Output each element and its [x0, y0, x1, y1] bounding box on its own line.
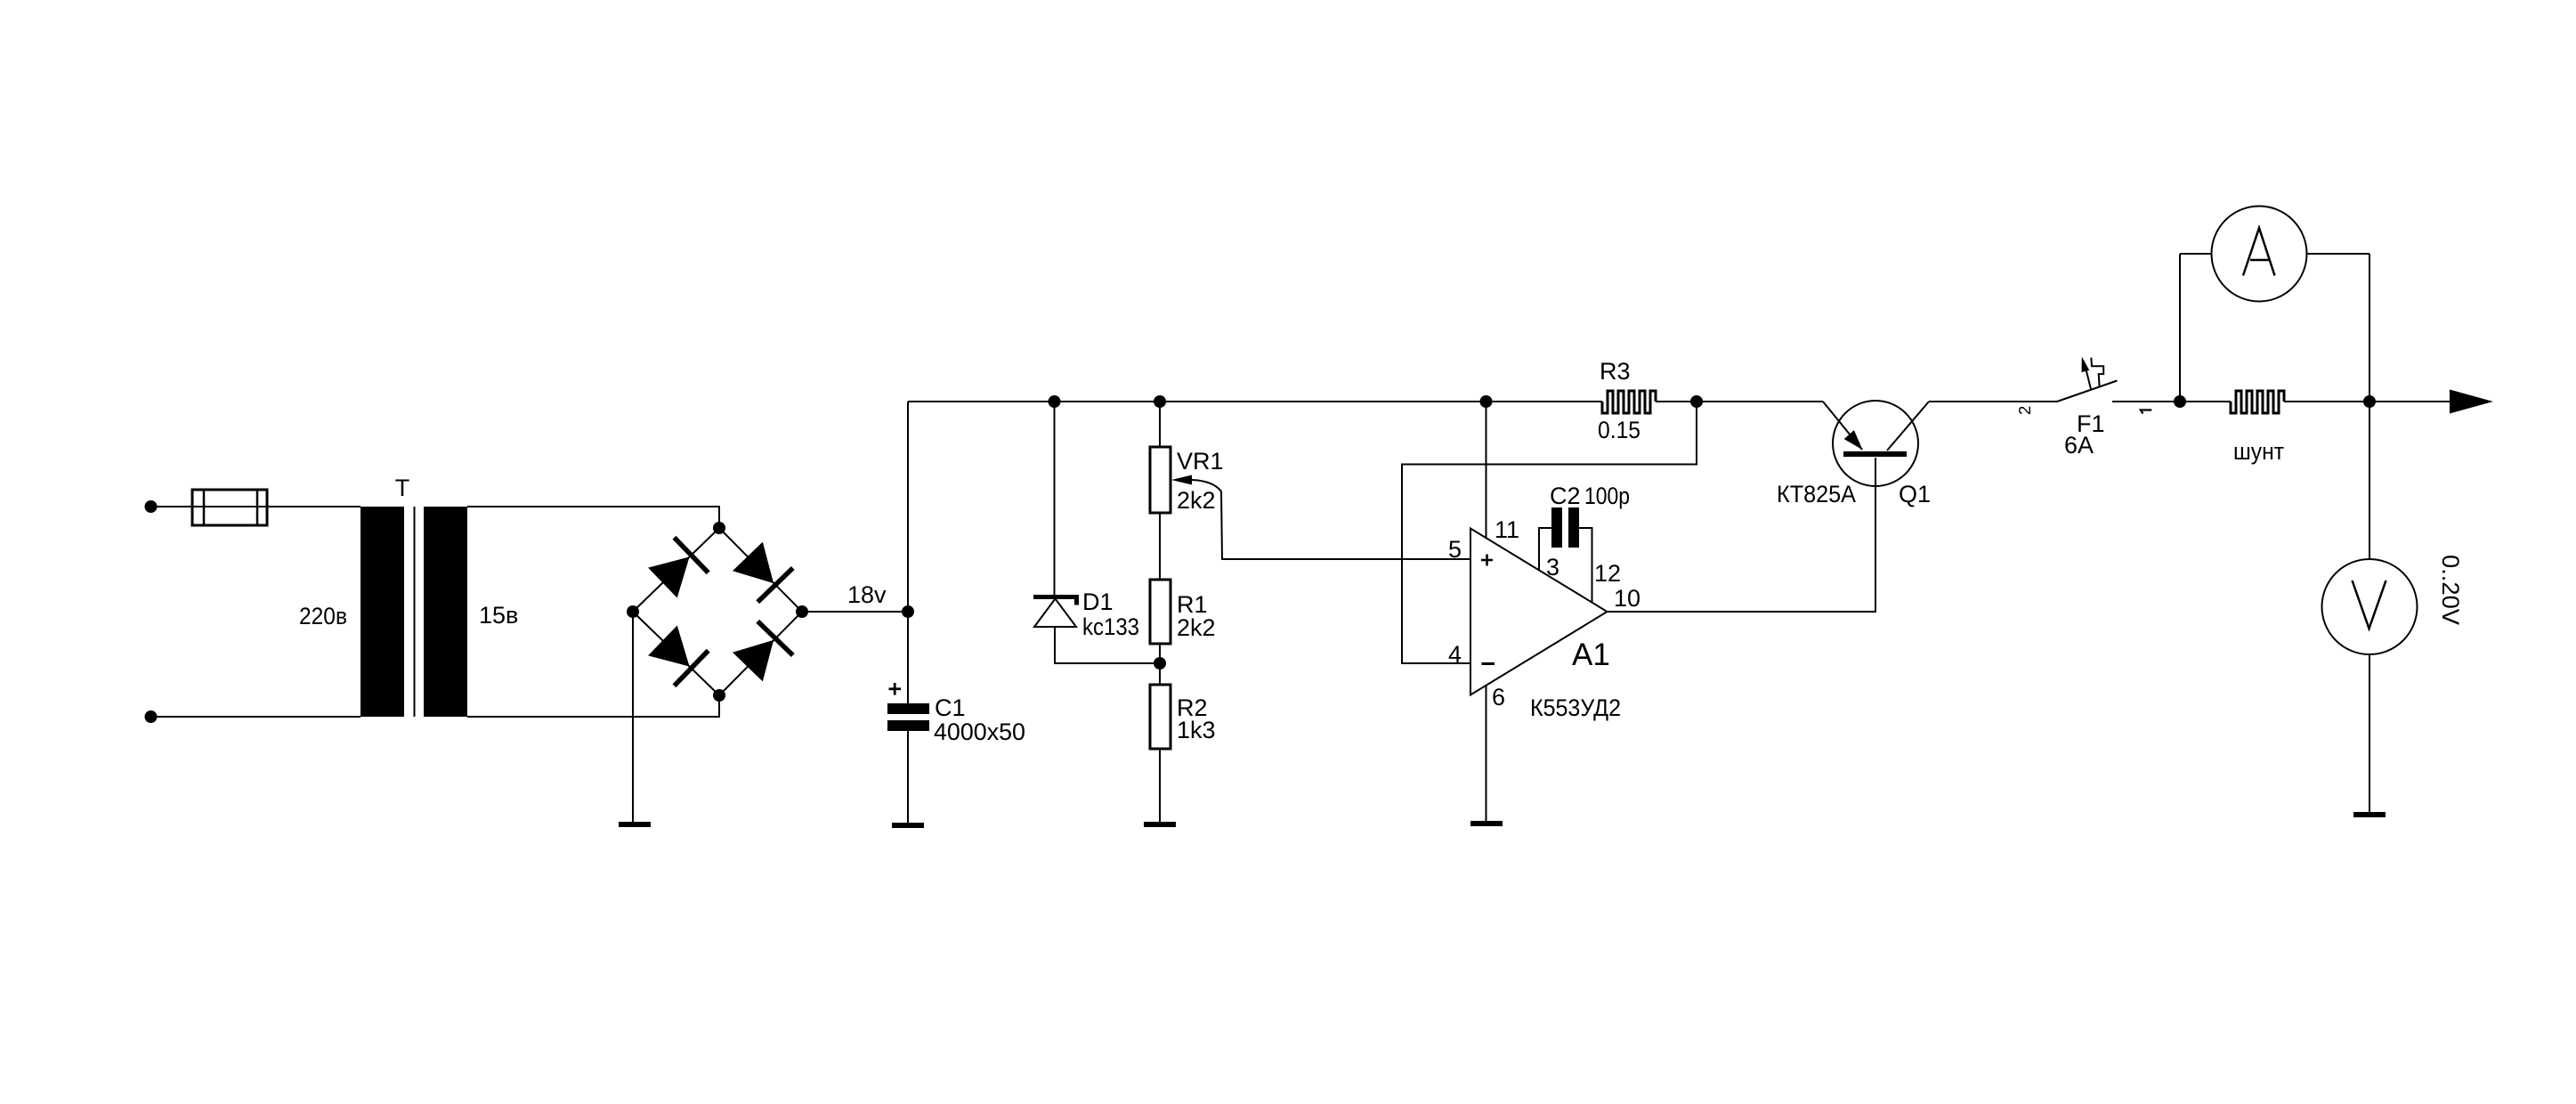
shunt resistor (meander): [2231, 391, 2284, 413]
svg-text:11: 11: [1495, 516, 1519, 543]
svg-text:К553УД2: К553УД2: [1530, 694, 1621, 721]
capacitor C1 plus sign: [889, 683, 902, 695]
ammeter PA circle: [2212, 207, 2307, 302]
svg-text:4: 4: [1448, 641, 1462, 668]
svg-text:2: 2: [2015, 406, 2034, 415]
node: bridge right: [796, 605, 808, 618]
wire: R3 to transistor emitter: [1656, 401, 1823, 402]
wire: VR1 wiper to op-amp pin 5: [1192, 480, 1470, 559]
svg-text:0.15: 0.15: [1598, 417, 1640, 443]
svg-text:1k3: 1k3: [1177, 717, 1216, 743]
wire: bridge left node down to ground: [632, 612, 634, 822]
wire: pin 6 to ground: [1486, 686, 1487, 822]
wire: node down to voltmeter: [2369, 402, 2370, 559]
output arrow: [2450, 390, 2493, 414]
svg-text:18v: 18v: [847, 581, 887, 608]
capacitor C1 bottom plate: [887, 720, 929, 731]
ground (bridge left): [619, 822, 651, 827]
svg-text:3: 3: [1546, 554, 1559, 580]
svg-text:0..20V: 0..20V: [2437, 555, 2464, 625]
svg-text:15в: 15в: [479, 602, 518, 629]
wire: C2 right to pin 12: [1579, 528, 1592, 602]
wire: voltmeter to ground: [2369, 654, 2370, 812]
voltmeter PV circle: [2322, 559, 2418, 654]
bridge diode bottom-right: [730, 620, 795, 684]
bridge arm bottom-right: [719, 612, 802, 695]
wire: pin 3 to C2 left: [1539, 528, 1551, 571]
bridge arm top-left: [633, 528, 719, 612]
bridge arm bottom-left: [633, 612, 719, 695]
svg-text:КТ825А: КТ825А: [1777, 481, 1856, 507]
node: input terminal bottom: [145, 710, 158, 723]
svg-text:VR1: VR1: [1177, 448, 1224, 475]
svg-text:100p: 100p: [1584, 483, 1630, 509]
capacitor C1 top plate: [887, 703, 929, 714]
bridge diode top-right: [730, 540, 795, 604]
breaker F1 blade: [2057, 381, 2118, 402]
transistor Q1 emitter arrow: [1844, 430, 1868, 454]
svg-text:12: 12: [1594, 560, 1621, 587]
wire: rail to VR1: [1159, 402, 1161, 447]
svg-text:4000x50: 4000x50: [934, 718, 1025, 745]
wire: ammeter branch right horizontal: [2307, 253, 2370, 255]
svg-text:2k2: 2k2: [1177, 614, 1216, 641]
wire: 18v vertical (rail down to C1): [907, 402, 909, 703]
node: bridge left: [627, 605, 639, 618]
svg-text:C1: C1: [935, 694, 966, 721]
wire: VR1 to R1: [1159, 513, 1161, 580]
transistor Q1 circle: [1833, 401, 1918, 486]
fuse (input): [192, 490, 267, 525]
node: bridge top: [713, 522, 725, 534]
svg-text:R3: R3: [1600, 358, 1631, 385]
transistor Q1 collector lead: [1887, 402, 1929, 451]
wire: shunt to output arrow: [2284, 401, 2450, 402]
wire: op-amp output to transistor base: [1608, 458, 1876, 612]
bridge arm top-right: [719, 528, 802, 612]
svg-text:A1: A1: [1572, 637, 1610, 672]
ground (voltmeter): [2353, 812, 2386, 817]
wire: collector to breaker F1: [1929, 401, 2057, 402]
op-amp plus input marking: [1481, 555, 1493, 566]
capacitor C2 left plate: [1551, 507, 1562, 548]
bridge diode top-left: [645, 536, 709, 601]
transistor Q1 base bar: [1843, 451, 1907, 457]
zener diode D1 cathode bar: [1033, 595, 1079, 599]
resistor R3 (meander): [1602, 391, 1656, 413]
svg-text:Q1: Q1: [1899, 481, 1931, 507]
svg-text:T: T: [395, 475, 410, 501]
potentiometer VR1 wiper arrow: [1171, 475, 1192, 485]
wire: +18v top rail: [908, 401, 1602, 402]
node: R1/R2/D1 junction: [1154, 657, 1166, 670]
svg-text:6A: 6A: [2064, 432, 2094, 459]
wire: ammeter branch right vertical: [2369, 254, 2370, 402]
wire: R2 to ground: [1159, 749, 1161, 822]
node: R3 right / feedback: [1690, 395, 1703, 408]
wire: R1 to junction: [1159, 644, 1161, 685]
svg-text:шунт: шунт: [2233, 438, 2284, 465]
ground (op-amp pin 6): [1470, 821, 1503, 826]
zener diode D1 cathode tail: [1074, 599, 1079, 605]
breaker pin label 1 (rotated): [2141, 410, 2152, 414]
node: shunt left / ammeter branch: [2174, 395, 2186, 408]
svg-text:220в: 220в: [299, 603, 347, 629]
node: shunt right / voltmeter branch: [2363, 395, 2376, 408]
ammeter letter A: [2243, 228, 2275, 276]
wire: breaker fixed contact to node: [2112, 401, 2180, 402]
wire: input bottom to transformer primary: [151, 716, 361, 718]
wire: node to shunt: [2180, 401, 2231, 402]
wire: C1 to ground: [907, 731, 909, 823]
wire: bridge right node to 18v node: [802, 611, 908, 613]
svg-text:2k2: 2k2: [1177, 487, 1216, 514]
zener diode D1 triangle: [1034, 599, 1076, 628]
node: rail / D1 branch: [1049, 395, 1061, 408]
resistor R2 body: [1150, 685, 1171, 749]
wire: feedback from R3 right node to op-amp pin 4: [1402, 402, 1697, 663]
transistor Q1 emitter lead: [1823, 402, 1862, 450]
breaker F1 arrow head: [2078, 355, 2089, 372]
ground (R2): [1144, 822, 1176, 827]
breaker F1 hook symbol: [2091, 358, 2103, 386]
wire: pin 11 from rail: [1486, 402, 1487, 539]
op-amp minus input marking: [1482, 662, 1495, 665]
svg-text:D1: D1: [1082, 589, 1114, 615]
transformer T secondary winding: [424, 507, 467, 717]
capacitor C2 right plate: [1568, 507, 1579, 548]
wire: secondary top to bridge: [467, 507, 719, 528]
voltmeter letter V: [2353, 580, 2386, 629]
wire: ammeter branch left vertical: [2179, 254, 2181, 402]
wire: D1 anode down and right to junction: [1055, 627, 1160, 663]
svg-text:6: 6: [1492, 684, 1505, 710]
transformer T core: [414, 507, 416, 717]
node: 18v: [902, 605, 914, 618]
svg-text:kc133: kc133: [1082, 613, 1139, 640]
potentiometer VR1 body: [1150, 447, 1171, 513]
svg-text:10: 10: [1614, 585, 1640, 612]
svg-text:C2: C2: [1550, 483, 1581, 509]
transformer T primary winding: [360, 507, 404, 717]
node: rail / op-amp pin 11 branch: [1480, 395, 1493, 408]
node: bridge bottom: [713, 689, 725, 702]
svg-text:5: 5: [1448, 536, 1462, 563]
wire: input top to transformer primary: [151, 506, 361, 507]
node: rail / VR1 branch: [1154, 395, 1166, 408]
op-amp A1 triangle: [1470, 529, 1608, 695]
ground (C1): [892, 823, 924, 828]
bridge diode bottom-left: [645, 623, 709, 688]
wire: ammeter branch left horizontal: [2180, 253, 2212, 255]
wire: secondary bottom to bridge: [467, 695, 719, 717]
resistor R1 body: [1150, 580, 1171, 644]
breaker F1 arrow shaft: [2086, 369, 2092, 389]
node: input terminal top: [145, 500, 158, 513]
wire: rail to D1 cathode: [1054, 402, 1056, 595]
